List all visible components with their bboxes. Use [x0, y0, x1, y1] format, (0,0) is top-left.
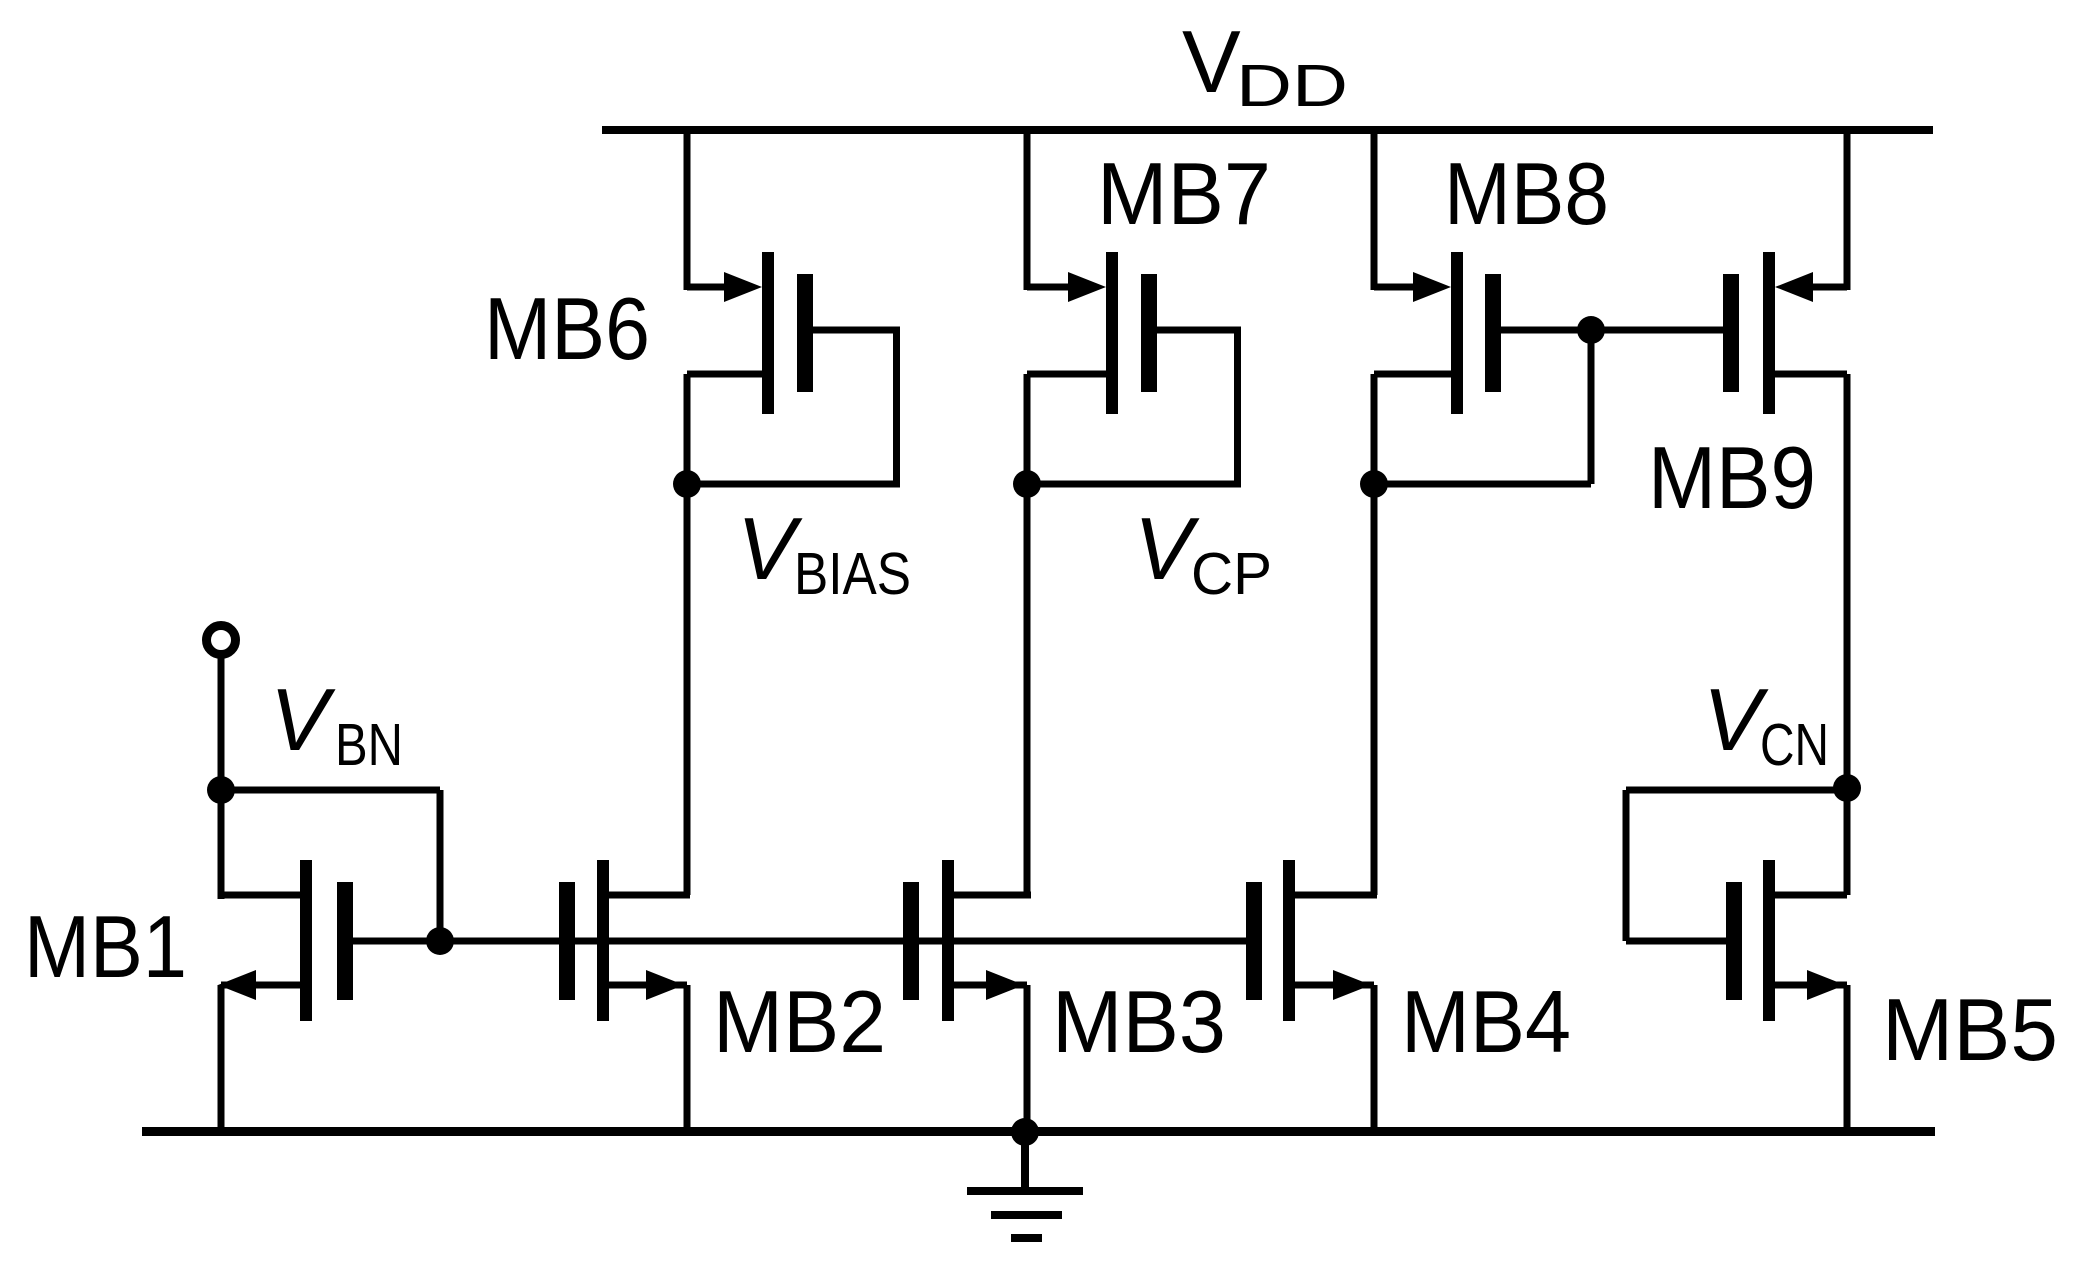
wire: MB9 source feed from VDD	[1844, 130, 1851, 290]
svg-text:CP: CP	[1191, 541, 1272, 607]
transistor MB9	[1723, 130, 1851, 895]
node VCP dot	[1013, 470, 1041, 498]
wire: MB6 drain lead	[687, 371, 762, 378]
svg-text:DD: DD	[1236, 53, 1348, 119]
node MB8 drain dot	[1360, 470, 1388, 498]
MB5 gate bar	[1726, 882, 1742, 1000]
ground bar 3	[1011, 1234, 1042, 1242]
MB6 channel bar	[762, 252, 774, 414]
wire: MB8 gate-drain loop	[1588, 330, 1595, 484]
wire: VBN node over to gate bus	[221, 787, 440, 794]
MB1 channel bar	[300, 860, 312, 1021]
wire: MB2 drain lead	[609, 892, 690, 899]
svg-text:MB7: MB7	[1097, 144, 1271, 243]
svg-text:MB1: MB1	[24, 897, 187, 996]
ground bar 2	[991, 1211, 1062, 1219]
MB7 source arrow	[1068, 272, 1106, 302]
node VCN dot	[1833, 774, 1861, 802]
MB4 channel bar	[1283, 860, 1295, 1021]
wire: MB2 source lead	[609, 982, 687, 989]
wire: MB6 drain down to VBIAS node and MB2 drain	[684, 374, 691, 895]
ground rail	[142, 1127, 1935, 1136]
wire: VCN gate loop	[1626, 787, 1847, 794]
MB5 source arrow	[1807, 970, 1845, 1000]
MB3 gate bar	[903, 882, 919, 1000]
svg-text:V: V	[270, 670, 336, 769]
wire: MB6 source feed from VDD	[684, 130, 691, 290]
wire: MB4 drain lead	[1295, 892, 1377, 899]
MB3 channel bar	[942, 860, 954, 1021]
wire: MB8 source feed from VDD	[1371, 130, 1378, 290]
svg-text:MB6: MB6	[484, 279, 650, 378]
wire: gate bus MB1 to MB4	[353, 938, 1246, 945]
ground bar 1	[967, 1187, 1083, 1195]
svg-text:MB9: MB9	[1648, 428, 1816, 527]
MB8 channel bar	[1451, 252, 1463, 414]
wire: MB9 drain lead	[1775, 371, 1847, 378]
svg-text:BN: BN	[335, 712, 403, 778]
MB5 channel bar	[1763, 860, 1775, 1021]
VDD rail	[602, 126, 1933, 134]
svg-text:BIAS: BIAS	[794, 541, 911, 607]
input terminal open circle	[207, 626, 236, 655]
wire: MB8 drain lead	[1374, 371, 1451, 378]
wire: MB1 source lead	[221, 982, 300, 989]
MB8 source arrow	[1413, 272, 1451, 302]
svg-text:MB3: MB3	[1052, 972, 1226, 1071]
wire: MB9 drain down to VCN node and MB5 drain	[1844, 374, 1851, 895]
MB7 channel bar	[1106, 252, 1118, 414]
svg-text:V: V	[1182, 12, 1241, 111]
wire: MB6 gate loop	[813, 327, 900, 334]
MB6 source arrow	[724, 272, 762, 302]
MB9 channel bar	[1763, 252, 1775, 414]
transistor MB6	[673, 130, 900, 895]
MB6 gate bar	[797, 274, 813, 392]
MB8 gate bar	[1485, 274, 1501, 392]
MB9 source arrow	[1775, 272, 1813, 302]
node VBIAS dot	[673, 470, 701, 498]
wire: MB3 source lead	[954, 982, 1027, 989]
transistor MB2	[559, 860, 691, 1131]
transistor MB4	[1246, 860, 1378, 1131]
node VBN dot	[207, 776, 235, 804]
transistor MB7	[1013, 130, 1241, 895]
MB3 source arrow	[986, 970, 1024, 1000]
transistor MB8	[1360, 130, 1723, 895]
node ground dot	[1011, 1118, 1039, 1146]
transistor MB3	[903, 860, 1031, 1131]
MB4 gate bar	[1246, 882, 1262, 1000]
wire: MB4 source down to ground	[1371, 985, 1378, 1131]
wire: MB7 source feed from VDD	[1024, 130, 1031, 290]
wire: MB8 gate to MB9 gate	[1501, 327, 1723, 334]
ground stub	[1021, 1136, 1029, 1188]
wire: MB1 source down to ground	[218, 985, 225, 1131]
MB2 channel bar	[597, 860, 609, 1021]
wire: MB3 source down to ground	[1024, 985, 1031, 1131]
svg-text:MB2: MB2	[713, 972, 886, 1071]
wire: MB8 drain down to node and MB4 drain	[1371, 374, 1378, 895]
MB7 gate bar	[1141, 274, 1157, 392]
MB9 gate bar	[1723, 274, 1739, 392]
transistor MB1	[207, 626, 455, 1132]
wire: terminal to VBN node	[218, 656, 225, 790]
wire: MB7 drain down to VCP node and MB3 drain	[1024, 374, 1031, 895]
transistor MB5	[1623, 774, 1862, 1131]
ground	[967, 1118, 1083, 1242]
node MB8 gate dot	[1577, 316, 1605, 344]
MB1 gate bar	[337, 882, 353, 1000]
wire: MB4 source lead	[1295, 982, 1374, 989]
svg-text:MB5: MB5	[1882, 980, 2058, 1079]
wire: MB5 source lead	[1775, 982, 1847, 989]
svg-text:CN: CN	[1760, 712, 1829, 778]
MB2 gate bar	[559, 882, 575, 1000]
wire: MB5 drain lead	[1775, 892, 1847, 899]
wire: MB3 drain lead	[954, 892, 1031, 899]
wire: MB5 source down to ground	[1844, 985, 1851, 1131]
wire: MB7 gate loop	[1157, 327, 1241, 334]
node gate bus dot	[426, 927, 454, 955]
svg-text:MB4: MB4	[1401, 972, 1571, 1071]
wire: MB7 drain lead	[1027, 371, 1106, 378]
MB4 source arrow	[1333, 970, 1371, 1000]
MB2 source arrow	[646, 970, 684, 1000]
wire: MB2 source down to ground	[684, 985, 691, 1131]
svg-text:MB8: MB8	[1444, 144, 1609, 243]
wire: VBN node down to MB1 drain lead	[218, 790, 225, 899]
MB1 source arrow	[218, 970, 256, 1000]
